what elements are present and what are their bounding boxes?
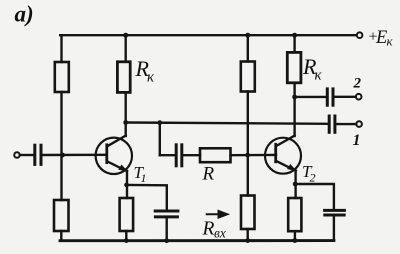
transistor T2 emitter diagonal xyxy=(276,161,296,171)
terminal output 2 xyxy=(356,94,362,100)
wire collector line T2 xyxy=(293,83,295,136)
resistor R2 (lower bias divider T1) xyxy=(54,200,69,231)
node top rail to Rk1 xyxy=(123,33,128,38)
wire cap to R xyxy=(183,154,200,156)
capacitor Cc plate left xyxy=(175,145,178,166)
svg-text:1: 1 xyxy=(353,132,361,149)
node emitter T2 junction xyxy=(293,182,298,187)
wire interstage signal (T1 collector to output 1) xyxy=(126,123,328,124)
svg-text:E: E xyxy=(375,28,387,48)
transistor T2 collector diagonal xyxy=(276,136,294,146)
resistor Re2 (emitter T2) xyxy=(288,198,301,231)
resistor Re1 (emitter T1) xyxy=(120,198,134,231)
wire emitter line T1 xyxy=(126,171,128,198)
wire input to coupling cap xyxy=(20,154,34,156)
capacitor Cin plate right xyxy=(40,145,43,164)
transistor T1 emitter arrowhead xyxy=(118,165,128,172)
svg-text:2: 2 xyxy=(310,171,316,185)
svg-text:1: 1 xyxy=(141,171,147,185)
capacitor C2 plate left xyxy=(326,89,329,105)
terminal +Ek xyxy=(357,32,363,38)
wire cap to base T1 xyxy=(43,154,107,157)
capacitor C1 plate left xyxy=(328,116,331,132)
transistor T2 emitter arrowhead xyxy=(287,164,297,171)
wire emitter T2 to bypass cap xyxy=(295,184,334,209)
node rail Re2 xyxy=(293,238,298,243)
wire Re2 bottom lead xyxy=(294,231,296,240)
wire bottom ground rail xyxy=(60,239,334,242)
wire column3 mid xyxy=(247,92,249,196)
node emitter T1 junction xyxy=(124,183,129,188)
wire column1 top xyxy=(60,35,62,62)
transistor T1 emitter diagonal xyxy=(107,161,127,171)
capacitor Ce2 plate top xyxy=(325,209,345,212)
wire R to base T2 xyxy=(231,154,277,157)
resistor Rk1 (collector T1) xyxy=(117,62,130,93)
node top rail to column3 xyxy=(245,33,250,38)
capacitor Ce1 plate bottom xyxy=(155,215,177,218)
label Rvx arrow xyxy=(207,211,228,218)
resistor R3 (upper bias divider T2) xyxy=(241,62,255,92)
wire Ce2 bottom lead xyxy=(333,216,335,240)
node collector T1 tap xyxy=(123,120,128,125)
svg-text:к: к xyxy=(315,68,323,84)
terminal input xyxy=(14,152,20,158)
wire emitter line T2 xyxy=(294,171,296,198)
node input-base junction xyxy=(60,153,65,158)
node R to divider junction xyxy=(245,153,250,158)
wire coupling to cap xyxy=(160,154,175,156)
resistor R1 (upper bias divider T1) xyxy=(55,62,69,92)
capacitor C1 plate right xyxy=(333,116,336,132)
transistor T1 collector diagonal xyxy=(107,136,125,147)
wire Rk2 top lead xyxy=(293,35,295,52)
node rail Ce1 xyxy=(164,238,169,243)
node collector T2 tap xyxy=(292,95,297,100)
resistor R4 (lower bias divider T2) xyxy=(241,196,255,230)
wire Rk1 top lead xyxy=(124,35,126,62)
node rail Re1 xyxy=(124,238,129,243)
node rail R4 xyxy=(245,238,250,243)
capacitor Ce1 plate top xyxy=(155,210,178,213)
wire column3 bottom xyxy=(246,229,248,241)
transistor T2 base bar xyxy=(274,144,277,162)
svg-text:2: 2 xyxy=(353,76,362,92)
capacitor Ce2 plate bottom xyxy=(325,214,344,217)
wire column1 mid xyxy=(60,92,62,200)
svg-text:а): а) xyxy=(15,2,34,27)
wire column1 bottom xyxy=(60,231,62,241)
wire Ce1 bottom lead xyxy=(165,218,167,241)
node coupling tap xyxy=(157,120,162,125)
svg-text:R: R xyxy=(202,164,215,185)
node top rail to Rk2 xyxy=(292,33,297,38)
transistor T1 circle xyxy=(96,138,132,174)
svg-text:к: к xyxy=(387,34,394,49)
wire cap2 to terminal xyxy=(335,96,356,98)
resistor Rk2 (collector T2) xyxy=(287,52,301,82)
transistor T2 circle xyxy=(265,138,301,174)
svg-text:вх: вх xyxy=(214,226,226,241)
resistor R (series base) xyxy=(200,148,231,162)
capacitor Cc plate right xyxy=(180,145,183,166)
capacitor C2 plate right xyxy=(332,89,335,105)
transistor T1 base bar xyxy=(105,145,108,163)
wire column3 top xyxy=(247,35,249,61)
terminal output 1 xyxy=(356,121,362,127)
wire coupling drop xyxy=(159,123,161,156)
capacitor Cin plate left xyxy=(33,145,36,164)
wire collector line T1 xyxy=(124,92,126,136)
wire emitter T1 to bypass cap xyxy=(127,185,167,210)
wire cap1 to terminal xyxy=(336,123,356,125)
svg-text:к: к xyxy=(147,70,155,86)
wire output2 xyxy=(295,96,326,98)
svg-text:R: R xyxy=(202,219,215,240)
wire Re1 bottom lead xyxy=(125,231,127,241)
wire top +Ek rail xyxy=(60,34,356,36)
